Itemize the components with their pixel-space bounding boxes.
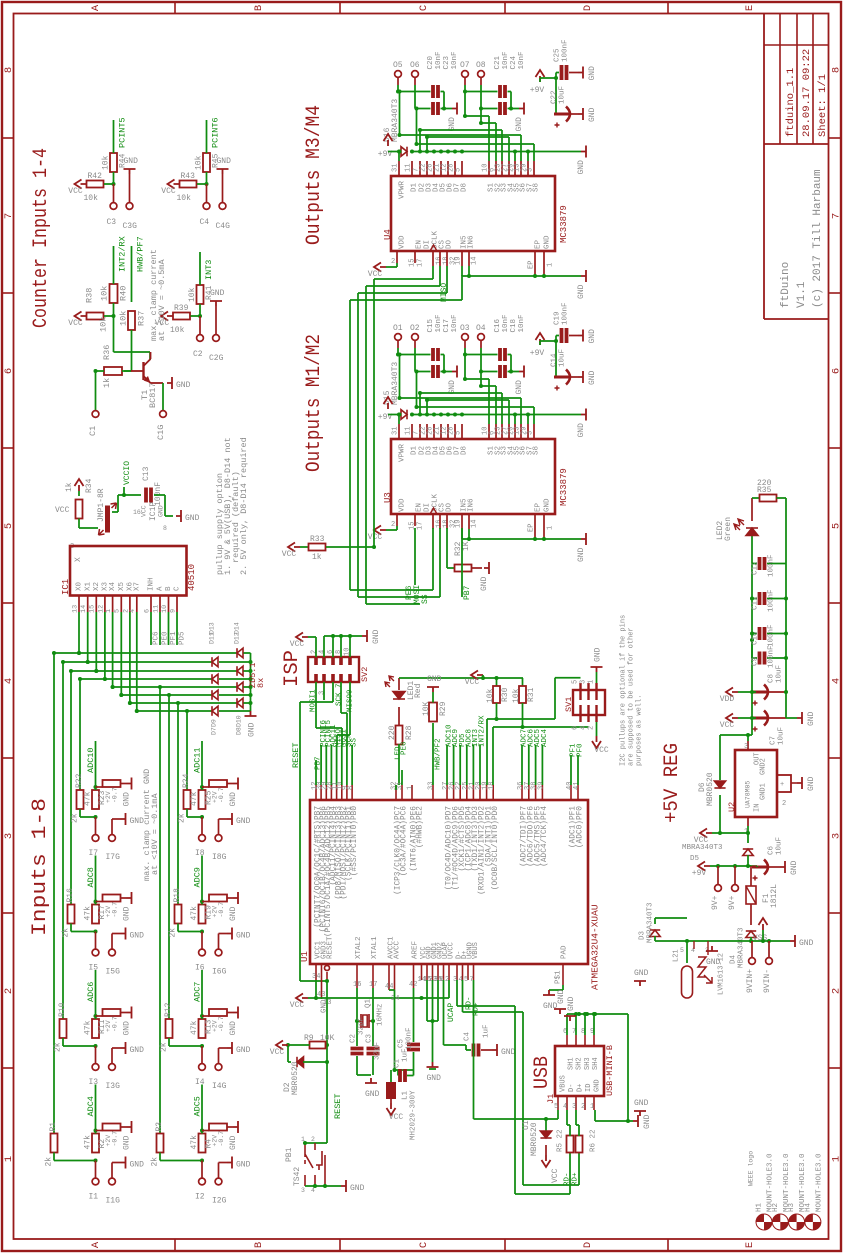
svg-text:R31: R31 [527,687,536,702]
svg-text:V1.1: V1.1 [796,281,808,308]
svg-text:O1: O1 [393,324,403,333]
svg-text:9VIN-: 9VIN- [763,969,772,993]
svg-text:VPWR: VPWR [399,180,407,199]
svg-text:I7G: I7G [106,853,121,862]
svg-text:14: 14 [80,605,88,613]
svg-text:-0.7: -0.7 [218,902,225,918]
svg-text:3: 3 [527,431,535,435]
shield grounds top [554,1009,566,1014]
svg-text:GND: GND [236,817,251,826]
svg-text:C1: C1 [88,426,98,436]
svg-text:USB: USB [531,1056,554,1089]
svg-text:S8: S8 [533,446,541,455]
svg-text:2k: 2k [44,1157,53,1167]
svg-text:O6: O6 [410,61,420,70]
svg-text:SV1: SV1 [564,697,574,712]
wire adc junction [201,1016,203,1019]
wire D16 cathode rail [411,151,581,153]
svg-text:4: 4 [563,1103,567,1111]
mount hole H2 [772,1214,788,1230]
svg-text:SH4: SH4 [592,1057,600,1070]
connector C4G [219,203,226,210]
resistor R2 47k [92,1134,99,1153]
svg-text:IN6: IN6 [468,498,476,512]
connector O8 [478,71,485,78]
svg-text:GND: GND [427,675,442,684]
svg-text:GND: GND [122,906,131,921]
svg-text:+9V: +9V [692,869,707,878]
resistor R32 1K [446,528,448,568]
capacitor C6 10uF [752,866,767,869]
capacitor C2 32pF [356,1021,358,1046]
svg-text:15: 15 [89,605,97,613]
VCC arrow reset [276,1041,288,1050]
svg-text:C4G: C4G [216,222,231,231]
svg-text:U2: U2 [727,802,737,812]
svg-text:GND: GND [577,547,586,562]
svg-text:MBR0520: MBR0520 [291,1061,300,1095]
svg-text:I7: I7 [89,849,99,858]
svg-text:10uF: 10uF [776,837,784,855]
svg-text:13: 13 [71,605,79,613]
svg-text:2: 2 [588,726,596,730]
svg-text:2: 2 [310,650,318,654]
resistor R45 10k [203,153,210,172]
connector I5 [95,932,97,949]
svg-text:GND: GND [229,1021,238,1036]
svg-text:GND: GND [229,1135,238,1150]
svg-text:8: 8 [3,67,15,73]
svg-text:O5: O5 [393,61,403,70]
svg-text:RD-: RD- [564,1172,572,1186]
svg-text:R42: R42 [88,172,103,181]
connector C4 [206,184,208,202]
svg-text:10k: 10k [486,688,495,703]
svg-text:UCAP: UCAP [447,1003,456,1022]
svg-text:C17: C17 [443,319,451,333]
svg-text:UVCC: UVCC [447,942,455,959]
svg-text:GND: GND [544,235,552,249]
svg-text:GND: GND [122,1135,131,1150]
svg-text:VCC: VCC [270,1048,285,1057]
svg-text:GND: GND [130,932,145,941]
svg-text:GND: GND [130,1046,145,1055]
svg-text:10k: 10k [188,287,197,302]
svg-text:O7: O7 [460,61,470,70]
snubber wiring group 2 [464,85,466,92]
resistor R28 220 [398,707,400,727]
svg-text:10uF: 10uF [559,86,567,104]
svg-text:GND: GND [427,1074,442,1083]
svg-text:47k: 47k [190,791,199,806]
svg-text:SH2: SH2 [576,1057,584,1070]
svg-text:RD+: RD+ [572,1172,580,1186]
wire adc junction [95,787,97,790]
svg-text:I4G: I4G [212,1082,227,1091]
U2 pin3 out [747,741,749,750]
svg-text:I4: I4 [195,1078,205,1087]
svg-text:C4: C4 [464,1031,472,1041]
resistor R37 [128,311,135,330]
J1 top pins [566,1035,568,1046]
svg-text:E: E [744,1242,756,1248]
regulator U2 body [735,750,777,817]
svg-text:SH3: SH3 [584,1057,592,1070]
connector I1 [95,1161,97,1178]
svg-text:R40: R40 [119,286,129,301]
resistor R24 2k [184,790,191,809]
connector C3G [126,203,133,210]
svg-text:VCC: VCC [389,1113,404,1122]
svg-text:GND: GND [557,989,566,1004]
svg-text:D8: D8 [235,727,242,735]
svg-text:ID: ID [585,1084,593,1092]
reset net wire [326,981,328,1143]
wire node [197,183,207,185]
svg-text:XTAL2: XTAL2 [355,936,363,959]
svg-text:GND: GND [210,289,225,298]
connector I3 [95,1046,97,1063]
svg-text:R43: R43 [181,172,196,181]
resistor R34 [76,500,83,519]
svg-text:D4: D4 [730,954,738,964]
svg-text:VCC: VCC [368,533,383,542]
capacitor C8 10uF VDD [752,691,767,694]
svg-text:D5: D5 [690,855,700,863]
ground input rail [786,940,790,942]
mount hole H3 [789,1214,805,1230]
capacitor C15 10nF [433,348,438,361]
clamp resistor [202,1015,209,1017]
svg-text:D1: D1 [411,182,419,192]
svg-text:VCC: VCC [290,1001,305,1010]
svg-text:EP: EP [535,502,543,512]
J1 bottom pins [557,1096,559,1110]
svg-text:GND: GND [593,647,602,662]
svg-text:are supposed to be used for ot: are supposed to be used for other [628,627,636,766]
svg-text:4: 4 [318,650,326,654]
svg-text:C3: C3 [107,218,117,227]
svg-text:D9: D9 [210,719,217,727]
svg-text:R37: R37 [137,311,147,326]
svg-text:C3: C3 [366,1033,374,1043]
svg-text:2k: 2k [61,928,70,938]
clamp resistor [202,1130,209,1132]
svg-text:R36: R36 [102,345,112,360]
svg-text:GND: GND [480,576,489,591]
svg-text:10k: 10k [194,155,203,170]
svg-text:SV2: SV2 [360,667,370,682]
usb title-adjacent J1 block [555,1046,604,1096]
svg-text:10k: 10k [170,326,185,335]
svg-text:C: C [418,5,430,11]
svg-text:9V+: 9V+ [711,895,720,910]
free ground 2 [634,1111,646,1116]
svg-text:HWB/PF7: HWB/PF7 [136,236,146,272]
svg-text:GND: GND [643,1114,652,1129]
svg-text:C1G: C1G [156,425,166,440]
input mux bus rows and verticals [54,652,238,654]
svg-text:100nF: 100nF [562,302,570,325]
svg-text:3: 3 [527,168,535,172]
left gnd stub [429,1068,436,1070]
ground diode array [245,711,257,716]
wire to net label [199,252,201,285]
svg-text:S8: S8 [533,183,541,192]
svg-text:VDD: VDD [720,695,735,704]
svg-text:4: 4 [831,678,843,684]
svg-text:INT3: INT3 [204,260,214,280]
svg-text:EN: EN [416,240,424,249]
svg-text:10k: 10k [512,688,521,703]
wire bus to node [177,924,179,932]
svg-text:(ADC4/TCK)PF4: (ADC4/TCK)PF4 [541,806,549,867]
svg-text:X2: X2 [93,582,101,591]
connector I2G [215,1178,222,1185]
VBUS pin wire [557,1110,559,1119]
svg-text:GND: GND [588,107,597,122]
svg-text:2: 2 [391,521,395,529]
SCL wire [492,727,494,785]
svg-text:6: 6 [831,368,843,374]
svg-text:9V+: 9V+ [728,895,737,910]
svg-text:(#SS/PCINT0)PB0: (#SS/PCINT0)PB0 [351,806,359,877]
svg-text:GND: GND [350,1184,365,1193]
svg-text:GND: GND [588,329,597,344]
svg-text:O3: O3 [460,324,470,333]
svg-text:GND: GND [157,505,164,517]
svg-text:H3: H3 [788,1202,796,1212]
svg-text:1k: 1k [312,553,322,562]
svg-text:11: 11 [152,605,160,613]
driver U4 MC33879 body [391,176,555,251]
svg-text:PCINT5: PCINT5 [118,117,128,148]
svg-text:I1G: I1G [106,1197,121,1206]
connector I1G [109,1178,116,1185]
svg-text:1: 1 [301,1136,305,1143]
svg-text:10uF: 10uF [776,665,784,683]
connector C2 [199,316,201,334]
svg-text:10K: 10K [320,1034,335,1043]
svg-text:INT2/RX: INT2/RX [118,236,128,272]
svg-text:C2: C2 [193,350,203,359]
svg-text:(c) 2017 Till Harbaum: (c) 2017 Till Harbaum [812,169,824,308]
svg-text:39: 39 [537,782,545,790]
svg-text:10k: 10k [177,194,192,203]
svg-text:1: 1 [3,1156,15,1162]
svg-text:H1: H1 [756,1202,764,1212]
svg-text:C16: C16 [494,318,502,332]
capacitor C12 100nF [760,557,765,570]
svg-text:+9V: +9V [530,86,545,95]
svg-text:R10: R10 [58,1002,67,1017]
svg-text:IN6: IN6 [468,235,476,249]
svg-text:10k: 10k [101,155,110,170]
svg-text:PE6: PE6 [401,741,409,755]
svg-text:VDD: VDD [399,498,407,512]
svg-text:I5: I5 [89,964,99,973]
svg-text:GND: GND [236,1161,251,1170]
svg-text:+5V REG: +5V REG [661,743,684,823]
svg-text:C13: C13 [142,466,151,481]
resistor R5 22 [567,1136,574,1153]
svg-text:R22: R22 [75,773,84,788]
svg-text:14: 14 [470,520,478,528]
svg-text:MBR0520: MBR0520 [706,772,715,806]
svg-text:47k: 47k [190,1135,199,1150]
svg-text:UA78M05: UA78M05 [744,781,751,808]
svg-text:100nF: 100nF [768,624,776,647]
svg-text:D-: D- [568,1084,576,1092]
svg-text:PD5: PD5 [179,631,187,645]
svg-text:9VIN+: 9VIN+ [746,969,755,993]
svg-text:X: X [74,557,83,562]
connector 9V+ b [734,866,736,884]
clamp resistor [96,1015,103,1017]
wire adc junction [95,1016,97,1019]
svg-text:C: C [418,1242,430,1248]
svg-text:1: 1 [590,1103,594,1111]
svg-text:7: 7 [831,213,843,219]
connector I7G [109,835,116,842]
net MISO to ISP [349,682,351,735]
svg-text:Inputs 1-8: Inputs 1-8 [29,798,52,936]
svg-text:C6: C6 [768,845,776,855]
svg-text:XTAL1: XTAL1 [371,936,379,959]
wire R37 base [131,330,133,371]
wire LED anode VCC rail [399,677,483,679]
LED LED1 [398,678,400,690]
svg-text:C2: C2 [350,1034,358,1043]
resistor R43 10k [180,181,197,188]
svg-text:GND: GND [372,629,381,644]
svg-text:(ADC0)PF0: (ADC0)PF0 [577,806,585,848]
svg-text:10nF: 10nF [451,51,459,69]
svg-text:at <10V = ~0.1mA: at <10V = ~0.1mA [150,792,160,875]
svg-text:1k: 1k [102,378,112,388]
connector O2 [412,334,419,341]
svg-text:GND: GND [634,1099,649,1108]
svg-text:15: 15 [408,259,416,267]
svg-text:10K: 10K [422,701,431,716]
svg-text:WEEE logo: WEEE logo [747,1151,754,1186]
svg-text:2k: 2k [150,1157,159,1167]
svg-text:O2: O2 [410,324,420,333]
capacitor C17 10nF [433,365,438,378]
svg-text:31: 31 [391,427,399,435]
svg-text:VCC: VCC [594,746,609,755]
resistor R16 2k [68,905,75,924]
svg-text:10nF: 10nF [518,51,526,69]
connector O4 [478,334,485,341]
svg-text:VCC: VCC [551,1168,560,1183]
wire bus to node [53,1153,55,1161]
input protection row [687,940,786,942]
connector O3 [462,334,469,341]
supply VCC [161,312,173,321]
svg-text:R39: R39 [174,304,189,313]
svg-text:PF0: PF0 [577,743,585,757]
svg-text:10: 10 [161,605,169,613]
diode D5 MBRA340T3 [747,833,749,843]
svg-text:X0: X0 [76,581,84,591]
svg-text:3: 3 [301,1187,305,1194]
resistor R29 10K on HWB [432,723,434,785]
svg-text:VCC: VCC [140,505,147,517]
svg-text:GND: GND [247,722,256,737]
svg-text:PAD: PAD [561,945,569,959]
bulk +9V arrow [536,70,545,82]
U2 pin1 in [747,817,749,826]
SV2 ground rail [323,636,325,657]
capacitor C21 10nF [500,85,505,98]
driver U3 MC33879 body [391,439,555,514]
svg-text:RESET: RESET [327,936,335,959]
resistor R3 2k [157,1134,164,1153]
svg-text:5: 5 [831,523,843,529]
net VCCIO [112,511,118,513]
resistor R11 47k [92,1019,99,1038]
svg-text:JMP1-8R: JMP1-8R [97,488,106,522]
svg-text:32pF: 32pF [374,1042,382,1060]
svg-text:C15: C15 [427,318,435,332]
resistor R25 47k [199,790,206,809]
svg-text:A: A [90,1241,102,1248]
clamp resistor [96,786,103,788]
connector O7 [462,71,469,78]
svg-text:Outputs M1/M2: Outputs M1/M2 [303,334,326,472]
svg-text:U3: U3 [383,492,393,503]
svg-text:3: 3 [831,833,843,839]
svg-text:I5G: I5G [106,968,121,977]
capacitor C20 10nF [433,85,438,98]
svg-text:I6: I6 [195,964,205,973]
svg-text:4: 4 [3,678,15,684]
svg-text:ADC11: ADC11 [193,747,203,773]
capacitor C7 10uF VCC [752,717,767,720]
svg-text:1k: 1k [65,482,74,492]
svg-text:GND: GND [807,711,816,726]
svg-text:R18: R18 [173,888,182,903]
svg-text:17: 17 [416,259,424,267]
svg-text:32: 32 [449,520,457,528]
svg-text:11: 11 [404,427,412,435]
svg-text:17: 17 [369,981,377,989]
svg-text:I6G: I6G [212,968,227,977]
clamp resistor [96,901,103,903]
svg-text:40510: 40510 [187,564,197,591]
snubber wiring group 2 [464,348,466,355]
svg-text:O8: O8 [476,61,486,70]
diode D4 MBRA340T3 [746,931,756,938]
svg-text:-0.7: -0.7 [111,787,118,803]
svg-text:DO: DO [446,239,454,249]
svg-text:1uF: 1uF [483,1024,491,1038]
IC1 40510 body [70,546,187,596]
svg-text:Red: Red [414,683,423,698]
svg-text:R9: R9 [304,1034,314,1043]
svg-text:R1: R1 [49,1122,58,1132]
svg-text:GND: GND [577,160,586,175]
svg-text:D13: D13 [208,622,215,634]
connector O1 [395,334,402,341]
svg-text:+9V: +9V [530,349,545,358]
svg-text:100nF: 100nF [768,589,776,612]
svg-text:47k: 47k [83,906,92,921]
resistor R40 [110,284,118,303]
svg-text:O4: O4 [476,324,486,333]
svg-text:INH: INH [148,577,156,591]
